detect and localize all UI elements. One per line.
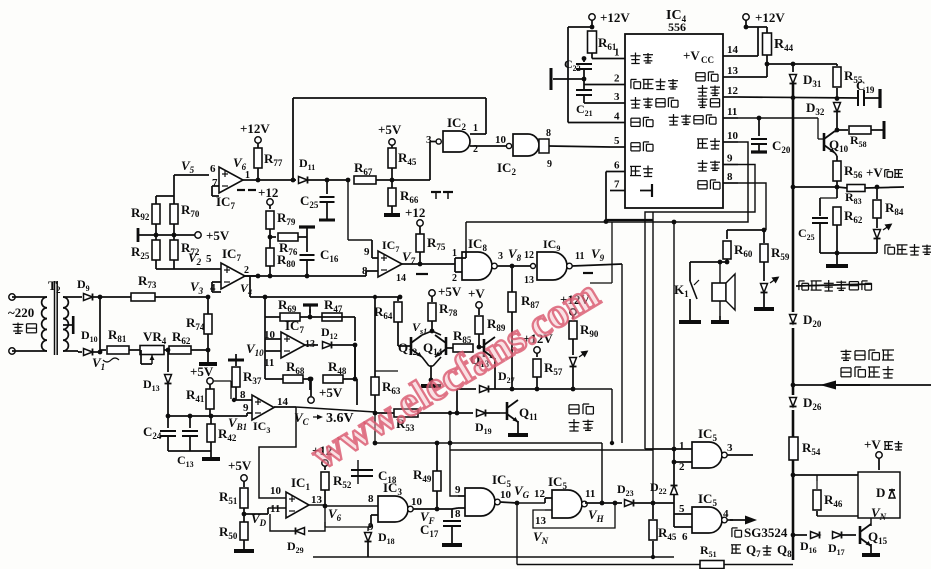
svg-text:9: 9 [364,246,370,258]
svg-text:+12V: +12V [755,10,785,25]
svg-text:1: 1 [679,440,685,452]
svg-text:14: 14 [727,44,739,56]
svg-text:2: 2 [452,273,457,284]
svg-text:4: 4 [614,111,620,123]
svg-text:CC: CC [701,55,714,65]
svg-text:9: 9 [547,159,552,170]
svg-text:3: 3 [727,442,733,454]
svg-text:3: 3 [426,134,432,146]
svg-text:3: 3 [498,251,503,262]
svg-text:14: 14 [396,273,406,284]
svg-text:13: 13 [535,515,547,527]
svg-text:8: 8 [727,171,733,183]
svg-text:10: 10 [270,485,282,497]
svg-text:8: 8 [368,493,374,505]
svg-text:+12: +12 [405,205,425,220]
svg-text:8: 8 [455,508,461,520]
svg-text:11: 11 [270,503,280,515]
svg-text:+V: +V [866,165,883,180]
svg-text:556: 556 [668,20,686,34]
svg-text:5: 5 [206,253,212,265]
svg-text:+V: +V [864,437,881,452]
svg-text:10: 10 [500,489,512,501]
svg-text:9: 9 [727,153,733,165]
svg-text:11: 11 [585,488,595,500]
svg-text:10: 10 [495,134,507,146]
svg-text:6: 6 [210,163,216,175]
svg-text:10: 10 [411,496,423,508]
svg-text:+12V: +12V [240,121,270,136]
svg-text:1: 1 [473,123,478,134]
svg-text:+5V: +5V [438,284,462,299]
svg-text:+5V: +5V [206,228,230,243]
svg-text:+5V: +5V [190,364,214,379]
svg-text:D: D [876,485,885,500]
svg-text:2: 2 [614,73,620,85]
svg-text:5: 5 [614,135,620,147]
svg-text:3: 3 [614,91,620,103]
svg-text:10: 10 [727,130,739,142]
svg-text:4: 4 [723,508,729,520]
svg-text:+5V: +5V [319,385,343,400]
svg-text:13: 13 [524,275,534,286]
svg-text:~220: ~220 [8,305,34,320]
svg-text:SG3524: SG3524 [744,525,788,540]
svg-text:7: 7 [212,177,218,189]
svg-text:12: 12 [534,488,546,500]
svg-text:8: 8 [362,265,368,277]
svg-text:+5V: +5V [378,122,402,137]
svg-text:+V: +V [468,286,485,301]
svg-text:+5V: +5V [228,458,252,473]
svg-text:13: 13 [727,65,739,77]
svg-text:+V: +V [683,48,700,63]
svg-text:7: 7 [614,179,620,191]
svg-text:+12V: +12V [600,10,630,25]
svg-text:12: 12 [727,85,739,97]
svg-text:8: 8 [546,128,551,139]
svg-text:2: 2 [56,285,61,295]
svg-text:11: 11 [264,357,274,369]
svg-text:11: 11 [575,251,584,262]
svg-text:6: 6 [682,531,688,543]
svg-text:12: 12 [524,250,534,261]
svg-text:+12: +12 [258,185,278,200]
svg-text:6: 6 [614,160,620,172]
svg-text:11: 11 [727,106,737,118]
svg-text:13: 13 [311,494,323,506]
svg-text:9: 9 [455,484,461,496]
svg-text:2: 2 [244,265,249,276]
